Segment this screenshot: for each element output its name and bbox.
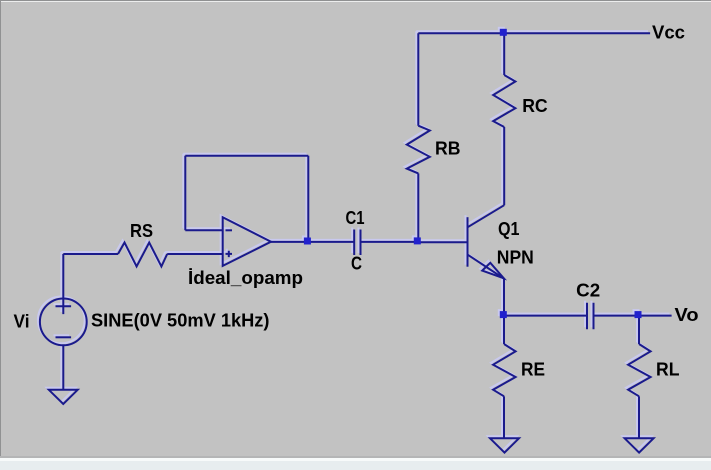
ground (under RE) <box>490 438 519 452</box>
wire emitter down <box>503 279 505 316</box>
bottom status strip <box>0 456 711 458</box>
svg-text:RB: RB <box>435 139 461 159</box>
wire RS to op-amp + input <box>167 253 223 255</box>
ground (under Vi) <box>49 390 78 404</box>
node emitter junction <box>500 311 507 318</box>
wire emitter node to C2 <box>504 315 587 317</box>
transistor Q1 <box>468 205 505 278</box>
svg-text:İdeal_opamp: İdeal_opamp <box>188 268 303 288</box>
resistor RE <box>493 316 515 439</box>
svg-text:SINE(0V 50mV 1kHz): SINE(0V 50mV 1kHz) <box>91 311 270 331</box>
svg-text:RC: RC <box>522 96 548 116</box>
wire node to Q1 base <box>418 241 467 243</box>
svg-text:Vcc: Vcc <box>652 23 685 43</box>
wire Vi to RS <box>63 253 118 255</box>
node Vcc rail junction <box>500 29 507 36</box>
op-amp U1 (İdeal_opamp) <box>223 217 271 266</box>
svg-text:C: C <box>351 253 362 273</box>
wire Vi top vertical <box>62 254 64 299</box>
svg-text:C1: C1 <box>346 208 365 228</box>
wire Vi bottom vertical <box>62 345 64 390</box>
capacitor C2 <box>587 303 594 329</box>
svg-text:RL: RL <box>656 360 680 380</box>
wire feedback to op-amp - input <box>185 229 222 231</box>
resistor RC <box>493 33 515 205</box>
svg-text:RS: RS <box>130 221 153 241</box>
voltage source Vi (V1) <box>40 299 87 346</box>
svg-text:RE: RE <box>521 360 545 380</box>
svg-text:Vi: Vi <box>14 312 30 332</box>
wire C2 to Vo node <box>594 315 640 317</box>
wire feedback top horizontal <box>185 155 308 157</box>
ground (under RL) <box>625 438 654 452</box>
resistor RL <box>628 316 651 439</box>
wire C1 to node <box>361 241 419 243</box>
wire Vo stub <box>639 315 672 317</box>
wire feedback left vertical <box>184 156 186 231</box>
capacitor C1 <box>354 230 360 256</box>
svg-text:Vo: Vo <box>675 305 699 325</box>
svg-text:C2: C2 <box>576 281 600 301</box>
wire feedback right vertical <box>307 156 309 242</box>
node op-amp output junction <box>304 238 311 245</box>
wire op-amp output to node <box>271 241 308 243</box>
svg-text:NPN: NPN <box>497 248 534 268</box>
wire node to C1 <box>308 241 354 243</box>
node C1/RB/base junction <box>414 237 421 244</box>
svg-text:Q1: Q1 <box>498 219 520 239</box>
resistor RB <box>407 33 430 242</box>
node Vo junction <box>635 311 642 318</box>
resistor RS <box>118 243 167 267</box>
wire top rail <box>418 32 650 34</box>
